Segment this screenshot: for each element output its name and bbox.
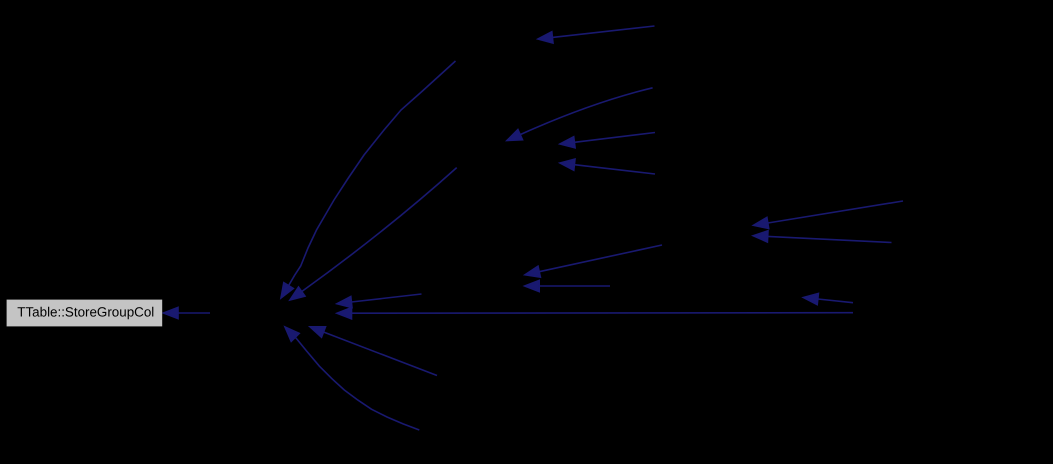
svg-text:TTable::StoreGroupCol: TTable::StoreGroupCol: [17, 304, 154, 319]
